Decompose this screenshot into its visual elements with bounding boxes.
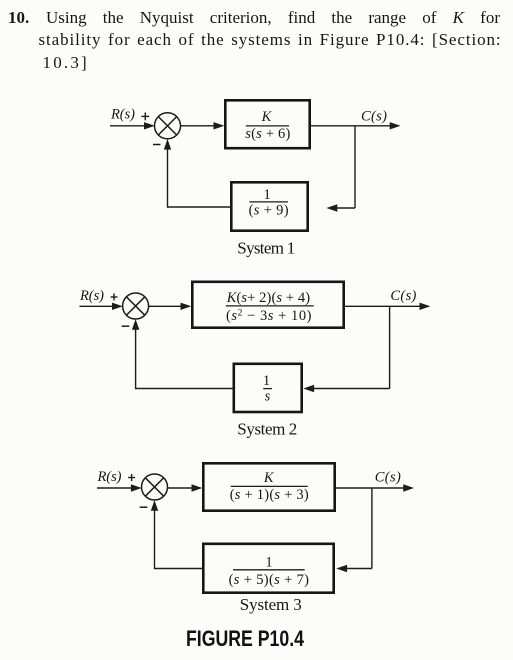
minus sign at summing junction S3: [140, 506, 148, 508]
svg-text:s(s + 6): s(s + 6): [245, 126, 290, 142]
label C(s) output System 3: [375, 470, 401, 486]
svg-text:(s + 5)(s + 7): (s + 5)(s + 7): [229, 572, 310, 588]
summing junction S2: [123, 293, 149, 319]
svg-text:System 3: System 3: [240, 595, 302, 614]
block H3 1/(s+5)(s+7): [203, 544, 333, 593]
wire block G2 to output C(s): [345, 303, 430, 310]
svg-text:(s + 1)(s + 3): (s + 1)(s + 3): [230, 487, 309, 503]
svg-text:1: 1: [263, 187, 270, 203]
label R(s) input System 2: [79, 288, 104, 304]
summing junction S1: [155, 113, 181, 139]
wire branch to feedback block H2: [303, 385, 389, 392]
svg-text:C(s): C(s): [390, 288, 416, 304]
problem number 10.: [8, 7, 29, 29]
svg-text:1: 1: [263, 373, 270, 389]
problem text line 3: [43, 52, 89, 74]
svg-text:R(s): R(s): [110, 107, 135, 123]
block G3 K/(s+1)(s+3): [203, 463, 334, 510]
block G1 K/s(s+6): [225, 100, 309, 148]
wire branch to feedback block H3: [336, 565, 372, 572]
block H2 1/s: [234, 364, 302, 412]
svg-text:R(s): R(s): [79, 288, 104, 304]
plus sign at summing junction S1: [141, 113, 149, 121]
problem text line 1: [46, 7, 500, 29]
svg-text:System 2: System 2: [237, 420, 297, 439]
minus sign at summing junction S1: [153, 144, 161, 146]
node branch point System 2: [389, 306, 391, 388]
svg-text:C(s): C(s): [375, 470, 401, 486]
svg-text:K: K: [261, 109, 273, 125]
svg-text:R(s): R(s): [97, 469, 122, 485]
wire R(s) input to summing junction S3: [97, 484, 142, 491]
caption FIGURE P10.4: [186, 626, 305, 651]
svg-text:K(s+ 2)(s + 4): K(s+ 2)(s + 4): [226, 290, 311, 306]
svg-text:(s + 9): (s + 9): [249, 202, 289, 218]
svg-text:K: K: [263, 470, 275, 486]
svg-text:System 1: System 1: [237, 239, 295, 258]
block G2 K(s+2)(s+4)/(s^2-3s+10): [192, 282, 343, 328]
label R(s) input System 3: [97, 469, 122, 485]
svg-text:FIGURE P10.4: FIGURE P10.4: [186, 626, 305, 651]
wire feedback block H2 to summing junction S2: [132, 319, 233, 389]
svg-text:s: s: [265, 388, 271, 404]
label System 3: [240, 595, 302, 614]
wire R(s) input to summing junction S1: [110, 122, 155, 129]
block H1 1/(s+9): [231, 182, 307, 230]
label System 2: [237, 420, 297, 439]
label C(s) output System 2: [390, 288, 416, 304]
summing junction S3: [142, 474, 168, 500]
svg-text:1: 1: [265, 555, 272, 571]
problem text line 2: [39, 29, 502, 51]
svg-text:C(s): C(s): [361, 109, 387, 125]
wire feedback block H3 to summing junction S3: [151, 500, 203, 569]
wire R(s) input to summing junction S2: [80, 303, 123, 310]
wire summing junction S2 to block G2: [149, 303, 192, 310]
wire feedback block H1 to summing junction S1: [164, 139, 231, 208]
wire block G1 to output C(s): [311, 122, 401, 129]
plus sign at summing junction S3: [128, 474, 135, 481]
svg-text:(s2 − 3s + 10): (s2 − 3s + 10): [226, 308, 312, 324]
node branch point System 3: [371, 488, 373, 569]
label System 1: [237, 239, 295, 258]
wire summing junction S1 to block G1: [181, 122, 225, 129]
minus sign at summing junction S2: [122, 325, 130, 327]
label R(s) input System 1: [110, 107, 135, 123]
label C(s) output System 1: [361, 109, 387, 125]
wire summing junction S3 to block G3: [167, 484, 202, 491]
wire block G3 to output C(s): [336, 484, 414, 491]
node branch point System 1: [354, 126, 356, 208]
plus sign at summing junction S2: [111, 294, 118, 301]
wire branch to feedback block H1: [327, 204, 356, 211]
